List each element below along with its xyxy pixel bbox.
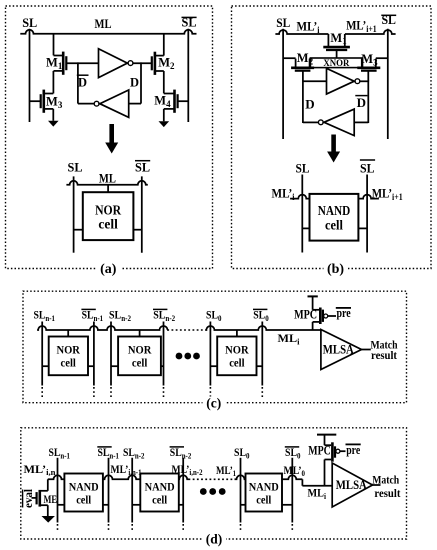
svg-text:MLSA: MLSA xyxy=(323,342,354,356)
svg-text:NOR: NOR xyxy=(56,342,80,356)
svg-text:result: result xyxy=(374,486,400,500)
supply (c) xyxy=(308,296,318,309)
arrow (a) xyxy=(105,124,118,154)
label Match result (c) xyxy=(371,337,398,362)
ground (a left) xyxy=(48,121,59,127)
svg-text:XNOR: XNOR xyxy=(323,58,349,68)
svg-text:NOR: NOR xyxy=(128,342,152,356)
wire SL vertical 2 (c) xyxy=(93,322,95,398)
transistor M3 (b) xyxy=(357,52,380,71)
wire MPC gate to prebar (c) xyxy=(328,315,336,317)
wire ML (a lower) xyxy=(66,181,147,185)
svg-text:result: result xyxy=(371,348,397,362)
label MLi (b top) xyxy=(297,20,320,35)
ground ME (d) xyxy=(42,516,55,523)
wire SL vertical 2 (d) xyxy=(108,458,110,532)
svg-text:Match: Match xyxy=(372,473,399,487)
wire ML seg3 dotted (d) xyxy=(189,478,235,480)
NOR cell box 2 (c) xyxy=(118,337,161,376)
wire SL vertical 5 (d) xyxy=(240,458,242,532)
label SLbar0 (c) xyxy=(253,308,269,323)
label (d) xyxy=(203,532,227,547)
panel (a) dotted border xyxy=(6,6,213,269)
wire ME source to ground (d) xyxy=(47,505,49,516)
svg-text:NAND: NAND xyxy=(249,479,279,493)
wire SL vertical 6 (c) xyxy=(261,322,263,398)
node Dbar vertical (a) xyxy=(77,62,79,103)
svg-text:MLi: MLi xyxy=(308,486,327,501)
label SLn-2 (d) xyxy=(123,445,145,460)
wire SLbar vertical (b lower) xyxy=(366,175,368,253)
svg-text:ML: ML xyxy=(99,171,116,185)
label MLin-1 (d) xyxy=(111,462,142,477)
wire M4 gate to SLbar xyxy=(178,100,189,102)
svg-text:D: D xyxy=(357,95,366,110)
inverter U2 (a bottom) xyxy=(94,90,129,117)
label prebar (d) xyxy=(346,443,361,457)
node Dbar vertical (b) xyxy=(367,81,369,124)
label (a) xyxy=(96,261,121,277)
wire tabs cell 2 (c) xyxy=(111,365,164,367)
panel (c) dotted border xyxy=(23,291,407,403)
transistor M1 xyxy=(46,52,66,75)
svg-text:D: D xyxy=(130,75,139,89)
node D vertical (a) xyxy=(140,62,142,103)
wire M4 source down xyxy=(163,109,165,121)
label XNOR (b) xyxy=(323,58,349,68)
label (b) xyxy=(324,261,349,277)
wire SL vertical 3 (d) xyxy=(131,458,133,532)
svg-text:SL: SL xyxy=(135,161,150,175)
wire M2 gate to D (b) xyxy=(302,71,304,82)
label SL (b top-left) xyxy=(276,16,290,30)
svg-text:D: D xyxy=(78,75,87,89)
svg-text:NOR: NOR xyxy=(225,342,249,356)
wire ML stub cell 3 (c) xyxy=(236,330,238,337)
wire U1 out to Dbar (b) xyxy=(360,80,369,82)
label SLbar (a lower) xyxy=(135,161,150,175)
label MLin-2 (d) xyxy=(172,462,203,477)
wire U2 input from D xyxy=(129,103,141,105)
svg-text:cell: cell xyxy=(229,355,245,369)
wire right tab (b cell) xyxy=(358,227,367,229)
wire ML stub to NOR cell xyxy=(107,185,109,192)
svg-text:SL: SL xyxy=(276,16,290,30)
wire MLSA output (d) xyxy=(373,484,381,486)
inverter U2 (b bottom) xyxy=(318,109,354,136)
wire ML (c) solid right xyxy=(205,326,321,330)
NAND cell box (b) xyxy=(310,194,359,241)
svg-text:MLSA: MLSA xyxy=(336,478,367,492)
svg-text:SL: SL xyxy=(22,16,37,30)
wire SLbar vertical (b) xyxy=(387,29,389,139)
label MLi (d) xyxy=(308,486,327,501)
svg-text:SL: SL xyxy=(68,161,83,175)
svg-text:D: D xyxy=(305,96,314,111)
wire left tab (b cell) xyxy=(302,227,309,229)
svg-text:cell: cell xyxy=(61,355,77,369)
NAND cell box 3 (d) xyxy=(246,474,283,512)
NOR cell box 3 (c) xyxy=(217,337,256,376)
wire left tab (a cell) xyxy=(74,229,83,231)
transistor M4 xyxy=(154,90,177,113)
wire M1 gate to node Dbar to inverter xyxy=(66,62,98,64)
svg-text:(d): (d) xyxy=(206,532,223,547)
label Match result (d) xyxy=(372,473,400,500)
label MPC (c) xyxy=(294,308,317,322)
label NOR cell 2 (c) xyxy=(128,342,152,369)
wire ML (a) xyxy=(20,30,196,34)
NOR cell box (a) xyxy=(83,192,134,240)
wire M1 drain to ML xyxy=(53,34,55,56)
wire ML seg4 (d) xyxy=(282,475,332,486)
wire SL vertical 1 (c) xyxy=(41,322,43,398)
inverter U1 (b top) xyxy=(327,68,360,94)
label SL (a top-left) xyxy=(22,16,37,30)
label SL (b lower) xyxy=(296,162,310,176)
transistor M2 (b) xyxy=(291,51,314,71)
svg-text:NOR: NOR xyxy=(95,202,121,217)
label D (b) xyxy=(305,96,314,111)
label SLbar (b top-right) xyxy=(381,13,396,27)
wire U2 out to D (b) xyxy=(303,121,319,123)
transistor ME (d) xyxy=(37,490,57,507)
wire SL vertical 6 (d) xyxy=(291,458,293,532)
ellipsis dots (c) xyxy=(176,353,200,360)
wire Dbar to U2 input (b) xyxy=(354,121,368,123)
wire SL vertical 3 (c) xyxy=(110,322,112,398)
wire SL vertical (a) xyxy=(29,29,31,122)
svg-text:ME: ME xyxy=(44,492,58,506)
label D (a) xyxy=(130,75,139,89)
label ML (a lower) xyxy=(99,171,116,185)
svg-text:NAND: NAND xyxy=(69,479,99,493)
wire MPC source to ML (c) xyxy=(312,322,314,330)
wire M3 gate to SL xyxy=(30,100,41,102)
wire ML (c) dotted middle xyxy=(167,329,205,331)
NAND cell box 2 (d) xyxy=(140,474,179,512)
wire SLbar vertical (a) xyxy=(187,29,189,122)
label MPC (d) xyxy=(308,444,331,458)
transistor M1 (b) xyxy=(323,31,350,50)
label SLn-1 (c) xyxy=(34,308,56,323)
transistor M3 xyxy=(41,90,63,113)
label MLin (d) xyxy=(24,462,56,477)
wire tabs cell 2 (d) xyxy=(132,504,183,506)
wire ME gate to eval (d) xyxy=(32,497,37,499)
panel (b) dotted border xyxy=(232,6,432,269)
wire M1 source to M3 drain xyxy=(52,71,54,94)
wire tabs cell 3 (d) xyxy=(241,504,293,506)
label ML (a top) xyxy=(95,17,112,31)
label NOR (a) xyxy=(95,202,121,217)
label MLi (c) xyxy=(278,331,301,346)
wire SLbar to M3 (b) xyxy=(376,57,388,59)
wire SL vertical (a lower) xyxy=(73,176,75,252)
svg-text:cell: cell xyxy=(325,217,343,232)
wire MLi+1 segment (b) xyxy=(345,30,396,34)
ground (a right) xyxy=(159,121,170,127)
label SLbarn-2 (c) xyxy=(153,308,175,323)
svg-text:ML’i: ML’i xyxy=(297,20,320,35)
wire tabs cell 1 (c) xyxy=(42,365,94,367)
wire MPC gate to prebar (d) xyxy=(340,450,346,452)
label ML0 (d) xyxy=(284,463,306,478)
label SL0 (c) xyxy=(206,308,222,323)
svg-text:NAND: NAND xyxy=(145,479,175,493)
label Dbar (a) xyxy=(77,75,89,89)
svg-text:cell: cell xyxy=(76,492,92,506)
svg-text:cell: cell xyxy=(152,492,168,506)
node D vertical (b) xyxy=(302,81,304,124)
wire MPC source to ML (d) xyxy=(324,460,326,486)
wire U1 out to M2 gate xyxy=(133,62,151,64)
wire ML stub cell 2 (c) xyxy=(139,330,141,337)
wire ME drain up (d) xyxy=(47,479,49,491)
label NAND cell 2 (d) xyxy=(145,479,175,506)
svg-text:MLi: MLi xyxy=(278,331,301,346)
label SL0 (d) xyxy=(234,445,250,460)
wire ML stub cell 1 (c) xyxy=(67,330,69,337)
wire MLSA output (c) xyxy=(362,349,371,351)
label SLbar0 (d) xyxy=(285,445,301,460)
amplifier MLSA (c) xyxy=(321,330,362,370)
wire SL vertical 1 (d) xyxy=(57,458,59,532)
supply (d) xyxy=(317,435,336,446)
wire M1 gate to XNOR (b) xyxy=(336,50,338,58)
wire ML seg2 (d) xyxy=(103,475,140,479)
label ML1 (d) xyxy=(216,463,236,478)
wire SL to M2 (b) xyxy=(283,57,296,59)
label MLi+1 (b top) xyxy=(346,19,377,34)
wire M2 source to M4 drain xyxy=(163,71,165,93)
svg-text:ML’i: ML’i xyxy=(272,187,295,202)
arrow (b) xyxy=(327,135,340,163)
svg-text:(a): (a) xyxy=(100,262,117,277)
transistor MPC (d) xyxy=(325,442,340,461)
svg-text:cell: cell xyxy=(256,492,272,506)
wire ML (c) solid left xyxy=(37,326,167,330)
panel (d) dotted border xyxy=(21,428,407,539)
label SLn-1 (d) xyxy=(49,445,71,460)
wire ML seg3b (d) xyxy=(235,475,246,479)
svg-text:NAND: NAND xyxy=(318,203,351,218)
wire ML seg1 (d) xyxy=(48,475,65,479)
NOR cell box 1 (c) xyxy=(49,337,88,376)
wire SL vertical (b lower) xyxy=(301,175,303,253)
label SLbar (a top-right) xyxy=(182,16,197,30)
label cell (b) xyxy=(325,217,343,232)
label NAND (b) xyxy=(318,203,351,218)
svg-text:cell: cell xyxy=(98,216,118,231)
wire M3 source down xyxy=(52,109,54,121)
wire MLi into cell (b) xyxy=(290,195,309,199)
label MLi (b lower) xyxy=(272,187,295,202)
wire MLi segment (b) xyxy=(275,30,328,34)
label NOR cell 3 (c) xyxy=(225,342,249,369)
label cell (a) xyxy=(98,216,118,231)
wire SLbar vertical (a lower) xyxy=(141,176,143,252)
label (c) xyxy=(203,395,226,410)
label NAND cell 3 (d) xyxy=(249,479,279,506)
wire SL vertical 5 (c) xyxy=(209,322,211,398)
transistor M2 xyxy=(152,52,175,75)
wire MLi+1 out of cell (b) xyxy=(358,195,379,199)
wire SL vertical (b) xyxy=(282,29,284,139)
inverter U1 (a top) xyxy=(99,49,133,78)
wire U2 out to Dbar xyxy=(78,103,94,105)
label SLbar (b lower) xyxy=(360,160,375,176)
ellipsis dots (d) xyxy=(200,488,226,495)
svg-text:SL: SL xyxy=(360,162,375,176)
label Dbar (b) xyxy=(355,95,367,110)
wire ML seg3 solid (d) xyxy=(179,475,189,479)
label SLbarn-1 (c) xyxy=(81,308,103,323)
svg-text:ML: ML xyxy=(95,17,112,31)
label prebar (c) xyxy=(336,306,351,320)
transistor MPC (c) xyxy=(313,308,328,325)
wire tabs cell 3 (c) xyxy=(210,365,262,367)
wire M3 gate to Dbar (b) xyxy=(367,71,369,82)
label SLn-2 (c) xyxy=(109,308,131,323)
amplifier MLSA (d) xyxy=(332,463,372,507)
svg-text:SL: SL xyxy=(296,162,310,176)
NAND cell box 1 (d) xyxy=(64,474,103,512)
wire right tab (a cell) xyxy=(133,229,141,231)
label NOR cell 1 (c) xyxy=(56,342,80,369)
wire tabs cell 1 (d) xyxy=(58,504,109,506)
wire M2 to XNOR (b) xyxy=(309,58,312,60)
label SLbarn-1 (d) xyxy=(97,445,119,460)
label eval (d) xyxy=(21,488,35,508)
svg-text:cell: cell xyxy=(132,355,148,369)
wire M2 drain to ML xyxy=(163,34,165,56)
label NAND cell 1 (d) xyxy=(69,479,99,506)
svg-text:(c): (c) xyxy=(206,395,221,410)
label MLi+1 (b lower) xyxy=(372,187,403,202)
label SLbarn-2 (d) xyxy=(170,445,192,460)
wire SL vertical 4 (d) xyxy=(182,458,184,532)
label SL (a lower) xyxy=(68,161,83,175)
svg-text:(b): (b) xyxy=(327,262,344,277)
wire D to U1 input (b) xyxy=(303,80,327,82)
wire SL vertical 4 (c) xyxy=(163,322,165,398)
XNOR box (b) xyxy=(310,58,362,68)
